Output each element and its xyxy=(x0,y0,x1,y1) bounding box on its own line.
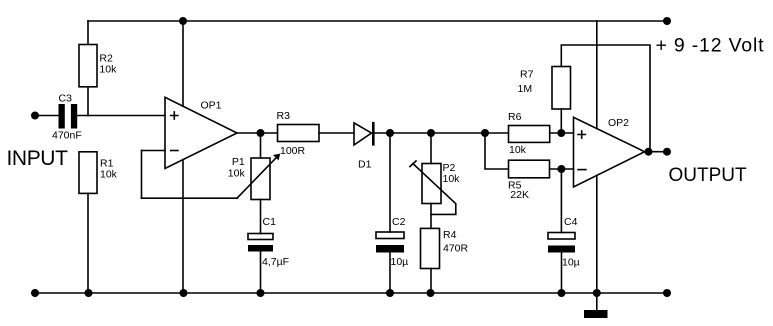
svg-text:10k: 10k xyxy=(228,168,246,180)
label R2 value xyxy=(99,53,117,76)
wire R3 to D1 xyxy=(319,132,354,134)
label P1 value xyxy=(228,156,246,179)
svg-text:10µ: 10µ xyxy=(391,256,409,268)
label R4 value xyxy=(443,229,469,255)
svg-text:C1: C1 xyxy=(263,216,277,228)
wire OP2 V- power to bottom rail xyxy=(596,175,598,293)
node R1 bottom xyxy=(85,289,93,297)
svg-text:R7: R7 xyxy=(520,68,534,80)
resistor R6 xyxy=(509,126,550,143)
node C2 bottom xyxy=(386,289,394,297)
svg-text:OP2: OP2 xyxy=(608,117,629,129)
wire R5 to OP2 minus xyxy=(550,168,574,170)
resistor R4 xyxy=(421,228,440,268)
pin OP2 plus sign xyxy=(578,131,585,138)
svg-text:+ 9 -12 Volt: + 9 -12 Volt xyxy=(656,34,765,56)
P1 wiper arrow xyxy=(237,154,280,199)
svg-text:10k: 10k xyxy=(100,169,118,181)
wire D1 to R6 xyxy=(375,132,509,134)
wire branch down to R5 xyxy=(485,133,509,169)
node R4 bottom xyxy=(427,289,435,297)
ground symbol xyxy=(584,293,608,318)
svg-text:C3: C3 xyxy=(59,93,73,105)
capacitor C1 xyxy=(248,234,273,252)
node output terminal xyxy=(663,148,671,156)
svg-text:10k: 10k xyxy=(99,64,117,76)
potentiometer P2 xyxy=(422,164,441,204)
potentiometer P1 xyxy=(251,158,270,200)
node C4 bottom xyxy=(558,289,566,297)
diode D1 xyxy=(354,122,375,146)
wire feedback to P1 wiper xyxy=(142,197,238,199)
svg-text:P2: P2 xyxy=(443,162,456,174)
wire OP1 output to R3 xyxy=(237,132,278,134)
wire output node down to P1 xyxy=(260,133,262,158)
op-amp OP2 xyxy=(574,117,645,187)
node OP1 power bottom xyxy=(180,289,188,297)
node ground junction xyxy=(593,289,601,297)
wire R6 to OP2 plus xyxy=(550,132,574,134)
svg-text:470nF: 470nF xyxy=(52,129,82,141)
label R7 value xyxy=(518,68,534,95)
capacitor C3 xyxy=(59,104,78,129)
wire C3 to OP1 plus input xyxy=(77,115,165,117)
wire top supply rail xyxy=(88,20,667,22)
label R1 value xyxy=(100,158,118,181)
pin OP1 minus sign xyxy=(171,150,178,152)
wire input terminal to C3 xyxy=(35,115,59,117)
node R5/R6 branch junction xyxy=(481,129,489,137)
resistor R2 xyxy=(79,45,97,87)
wire R1 to bottom rail xyxy=(87,193,89,293)
svg-text:10k: 10k xyxy=(509,144,527,156)
svg-text:100R: 100R xyxy=(280,145,306,157)
wire C2 branch down xyxy=(389,133,391,232)
svg-text:10µ: 10µ xyxy=(562,257,580,269)
svg-text:P1: P1 xyxy=(232,156,245,168)
svg-text:470R: 470R xyxy=(443,243,469,255)
wire OP2 output xyxy=(645,151,667,153)
node supply terminal xyxy=(663,17,671,25)
node C1 bottom xyxy=(257,289,265,297)
node rail left end xyxy=(31,289,39,297)
pin OP2 minus sign xyxy=(578,169,586,171)
wire P2 branch down xyxy=(430,133,432,164)
wire OP1 V- power to bottom rail xyxy=(182,160,184,293)
wire top rail to R2 xyxy=(87,21,89,45)
wire OP1 V+ power from top rail xyxy=(182,21,184,106)
wire C1 to bottom rail xyxy=(260,252,262,294)
wire OP2 V+ power from top rail xyxy=(596,21,598,129)
svg-text:C4: C4 xyxy=(564,216,578,228)
resistor R3 xyxy=(278,125,320,142)
resistor R5 xyxy=(509,160,550,178)
wire P1 to C1 xyxy=(260,200,262,234)
svg-text:1M: 1M xyxy=(518,83,533,95)
svg-text:R6: R6 xyxy=(508,111,522,123)
wire R7 bottom to plus node xyxy=(560,109,562,133)
node OP1 output junction xyxy=(257,129,265,137)
wire OP1 minus input stub xyxy=(142,150,166,152)
svg-text:R4: R4 xyxy=(443,229,457,241)
node input terminal xyxy=(31,112,39,120)
op-amp OP1 xyxy=(165,97,237,168)
wire feedback down xyxy=(141,151,143,199)
wire R2 to input node xyxy=(87,87,89,116)
node output junction xyxy=(645,148,653,156)
resistor R7 xyxy=(552,67,571,110)
svg-text:10k: 10k xyxy=(443,173,461,185)
node P2 junction xyxy=(427,129,435,137)
wire C4 to bottom rail xyxy=(561,253,563,294)
wire R7 feedback loop to output xyxy=(561,45,650,152)
wire P2 to R4 xyxy=(430,204,432,229)
node OP2 plus junction xyxy=(557,129,565,137)
svg-text:22K: 22K xyxy=(510,189,529,201)
node OP2 minus junction xyxy=(557,165,565,173)
wire bottom ground rail xyxy=(35,292,667,294)
svg-text:OUTPUT: OUTPUT xyxy=(669,165,748,186)
svg-text:4,7µF: 4,7µF xyxy=(262,256,289,268)
svg-text:R3: R3 xyxy=(277,110,291,122)
pin OP1 plus sign xyxy=(171,112,178,119)
svg-text:D1: D1 xyxy=(358,159,372,171)
node rail right end xyxy=(663,289,671,297)
label P2 value xyxy=(443,162,461,185)
capacitor C2 xyxy=(376,232,404,253)
svg-text:OP1: OP1 xyxy=(201,100,222,112)
wire C2 to bottom rail xyxy=(389,253,391,294)
wire C4 branch down xyxy=(560,169,562,233)
svg-text:INPUT: INPUT xyxy=(7,147,69,170)
svg-text:C2: C2 xyxy=(392,216,406,228)
wire R4 to bottom rail xyxy=(430,269,432,294)
label R5 value xyxy=(508,180,529,202)
capacitor C4 xyxy=(548,233,575,253)
resistor R1 xyxy=(79,152,97,194)
node C2 junction xyxy=(386,129,394,137)
node top rail junction xyxy=(179,17,187,25)
P2 wiper diagonal xyxy=(410,161,456,215)
